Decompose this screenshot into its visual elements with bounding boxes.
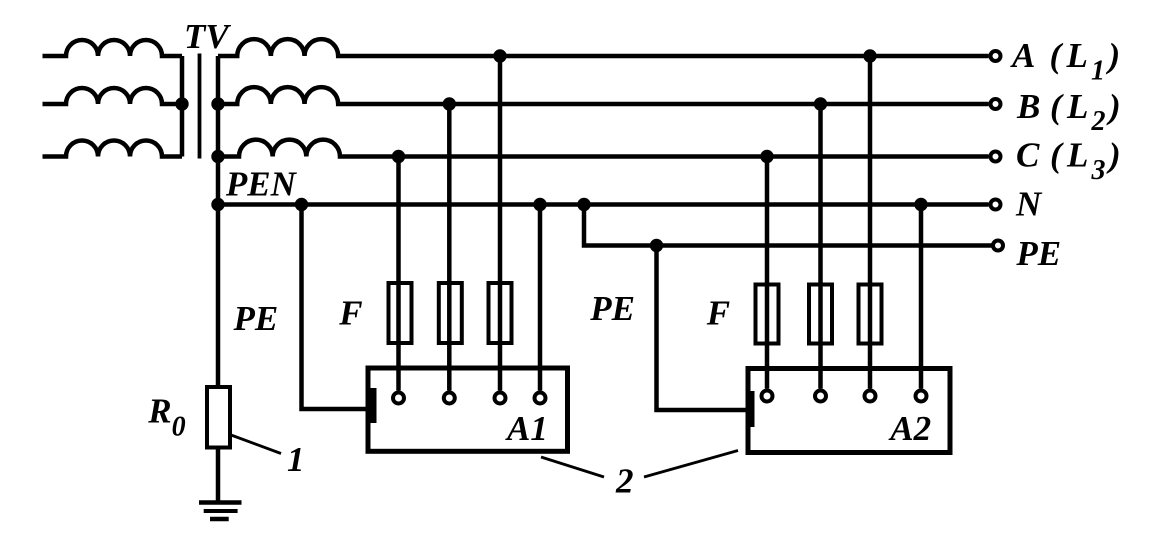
terminal 3 of A1 — [495, 393, 506, 404]
wire line PE — [584, 205, 992, 246]
ground bar 2 — [204, 509, 238, 513]
wire A1 phase B tap — [447, 104, 452, 391]
svg-text:2: 2 — [615, 462, 634, 501]
svg-text:C(L3): C(L3) — [1016, 136, 1121, 186]
svg-text:A1: A1 — [505, 409, 548, 448]
resistor R0 — [207, 387, 230, 448]
PE tick A1 — [369, 388, 377, 423]
node secondary bus junction B — [211, 97, 224, 110]
ground bar 1 — [199, 500, 242, 505]
wire PE to A1 — [302, 205, 369, 410]
svg-text:1: 1 — [287, 440, 305, 479]
node PE A2 tap — [650, 239, 663, 252]
wire A1 N tap — [538, 205, 543, 391]
wire primary bus — [180, 56, 185, 157]
node A1 N tap — [533, 198, 546, 211]
wire A1 phase A tap — [498, 56, 503, 391]
wire A2 phase C tap — [765, 157, 770, 389]
terminal 2 of A1 — [444, 393, 455, 404]
node PE line tap on N — [577, 198, 590, 211]
callout line 2 left — [541, 457, 604, 477]
wire A1 phase C tap — [396, 157, 401, 391]
terminal 1 of A2 — [762, 391, 773, 402]
fuse F A2-1 — [756, 285, 779, 344]
wire resistor to ground — [216, 450, 221, 501]
terminal circle PE — [993, 241, 1003, 251]
node PEN junction N — [211, 198, 224, 211]
node A2 C tap — [760, 150, 773, 163]
terminal circle C — [991, 152, 1001, 162]
PE tick A2 — [747, 391, 755, 427]
transformer TV secondary winding 3 + wire line C — [218, 140, 989, 157]
transformer TV secondary winding 2 + wire line B — [218, 87, 989, 104]
fuse F A2-2 — [809, 285, 832, 344]
wire line N — [218, 202, 989, 207]
svg-text:F: F — [706, 293, 730, 332]
svg-text:PEN: PEN — [225, 165, 298, 204]
node A1 A tap — [493, 49, 506, 62]
svg-text:PE: PE — [233, 299, 279, 338]
callout line 1 — [231, 435, 281, 454]
node A2 B tap — [814, 97, 827, 110]
terminal circle N — [991, 200, 1001, 210]
transformer TV primary winding 3 — [43, 141, 183, 157]
callout line 2 right — [644, 451, 738, 478]
node PE A1 tap — [295, 198, 308, 211]
terminal 2 of A2 — [815, 391, 826, 402]
fuse F A2-3 — [859, 285, 882, 344]
wire A2 phase A tap — [868, 56, 873, 389]
fuse F A1-2 — [439, 283, 462, 343]
svg-text:F: F — [338, 293, 362, 332]
svg-text:R0: R0 — [147, 392, 185, 443]
terminal circle A — [991, 51, 1001, 61]
svg-text:PE: PE — [589, 289, 635, 328]
box A2 — [748, 369, 950, 453]
svg-text:A2: A2 — [888, 409, 931, 448]
transformer TV core — [198, 54, 202, 159]
ground bar 3 — [210, 517, 229, 522]
svg-text:PE: PE — [1015, 234, 1061, 273]
svg-text:A(L1): A(L1) — [1010, 36, 1120, 86]
transformer TV primary winding 2 — [43, 88, 183, 104]
node A1 C tap — [392, 150, 405, 163]
transformer TV secondary winding 1 + wire line A — [218, 39, 989, 56]
wire A2 phase B tap — [818, 104, 823, 389]
svg-text:N: N — [1015, 184, 1043, 223]
box A1 — [368, 368, 568, 451]
wire PEN conductor vertical — [216, 56, 221, 385]
terminal 3 of A2 — [865, 391, 876, 402]
node secondary bus junction C — [211, 150, 224, 163]
wire PE to A2 — [657, 246, 749, 411]
terminal 4 of A2 — [916, 391, 927, 402]
node primary bus junction — [175, 97, 188, 110]
wire A2 N tap — [919, 205, 924, 389]
terminal circle B — [991, 99, 1001, 109]
node A1 B tap — [443, 97, 456, 110]
svg-text:TV: TV — [184, 17, 231, 56]
terminal 4 of A1 — [535, 393, 546, 404]
transformer TV primary winding 1 — [43, 40, 183, 56]
fuse F A1-3 — [489, 283, 512, 343]
node A2 N tap — [914, 198, 927, 211]
svg-text:B(L2): B(L2) — [1016, 87, 1121, 137]
terminal 1 of A1 — [393, 393, 404, 404]
node A2 A tap — [863, 49, 876, 62]
fuse F A1-1 — [389, 283, 412, 343]
